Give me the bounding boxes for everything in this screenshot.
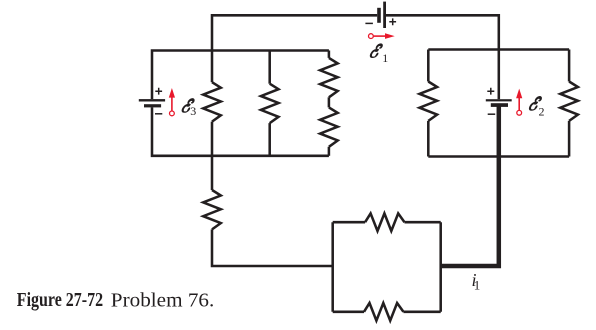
arrow tail circle (E3) <box>170 111 175 116</box>
current arrow for E1 (red, pointing right) <box>369 33 395 39</box>
battery E1 minus sign <box>365 22 373 24</box>
current arrow for E2 (red, pointing up) <box>516 89 522 116</box>
resistor R1 (first inner branch of left box) <box>203 82 221 121</box>
battery E3 plus sign <box>155 88 162 95</box>
current arrow for E3 (red, pointing up) <box>169 88 175 116</box>
wire right box left edge lower stub <box>427 121 430 157</box>
arrow head (E3) <box>169 88 175 98</box>
wire right box left edge upper stub <box>427 50 430 82</box>
wire right box right edge lower stub <box>568 121 571 157</box>
label EMF E3 (script E) <box>182 99 194 113</box>
battery E3 negative plate (short thick) <box>144 104 161 107</box>
wire left box right edge top stub <box>328 51 331 58</box>
wire bottom box left edge <box>331 222 334 312</box>
svg-text:2: 2 <box>539 105 545 119</box>
wire right box right edge upper stub <box>568 50 571 82</box>
wire bottom box top edge right stub <box>405 221 441 224</box>
wire middle branch of right box down to battery E2 <box>498 50 501 100</box>
wire left box left edge lower part and bottom edge <box>152 107 329 155</box>
svg-text:3: 3 <box>190 104 196 118</box>
resistor R_A (upper, right edge of left box) <box>320 58 338 97</box>
battery E1 plus sign <box>389 18 396 25</box>
resistor R_B (lower, right edge of left box) <box>320 107 338 146</box>
battery E2 minus sign <box>488 113 496 115</box>
arrow head (E2) <box>516 89 522 99</box>
wire branch 2 lower stub <box>268 123 271 156</box>
wire branch 1 lower, continuing below the box <box>211 122 214 190</box>
arrow tail circle (E1) <box>369 34 374 39</box>
battery E1 positive plate (long thin) <box>383 2 386 28</box>
wire right box top edge <box>428 48 569 51</box>
svg-text:Figure 27-72: Figure 27-72 <box>17 289 103 311</box>
wire bottom box bottom edge right stub <box>403 311 440 314</box>
arrow head (E1) <box>385 33 395 39</box>
battery E2 positive plate (long thin) <box>486 99 512 101</box>
wire branch 2 upper stub <box>268 51 271 84</box>
wire right box bottom edge <box>428 155 569 158</box>
resistor R7 (top of bottom parallel pair) <box>365 213 404 231</box>
resistor R2 (second inner branch of left box) <box>261 84 279 123</box>
battery E2 negative plate (short thick) <box>491 103 508 107</box>
battery E2 plus sign <box>487 88 494 95</box>
resistor R6 (below left box) <box>203 190 221 229</box>
arrow shaft (E1) <box>374 35 386 37</box>
wire top-right segment with corner down to right block <box>386 15 499 49</box>
arrow shaft (E2) <box>518 98 520 110</box>
wire right edge of left box bottom stub <box>328 147 331 156</box>
label EMF E1 (script E) <box>370 44 382 58</box>
arrow shaft (E3) <box>171 97 173 110</box>
label EMF E2 (script E) <box>529 96 541 110</box>
wire left box top edge and left edge upper part <box>152 51 329 100</box>
wire between series resistors <box>328 97 331 107</box>
wire from R6 down and right to bottom pair <box>212 229 333 266</box>
arrow tail circle (E2) <box>517 110 522 115</box>
wire bottom box right edge <box>439 222 442 312</box>
wire bottom box bottom edge left stub <box>333 311 364 314</box>
wire thick branch carrying i1 from battery E2 to bottom pair <box>441 104 499 266</box>
resistor R5 (right edge of right box) <box>560 82 578 121</box>
wire branch 1 upper stub <box>211 51 214 83</box>
battery E1 negative plate (short thick) <box>377 8 381 23</box>
resistor R8 (bottom of bottom parallel pair) <box>364 303 403 321</box>
wire top-left segment with corner down to left block <box>212 15 377 50</box>
svg-text:1: 1 <box>474 277 481 292</box>
battery E3 positive plate (long thin) <box>139 99 165 101</box>
resistor R4 (left edge of right box) <box>420 82 438 121</box>
svg-text:1: 1 <box>382 51 388 65</box>
svg-text:Problem 76.: Problem 76. <box>111 290 215 311</box>
battery E3 minus sign <box>155 113 162 115</box>
wire bottom box top edge left stub <box>333 221 365 224</box>
